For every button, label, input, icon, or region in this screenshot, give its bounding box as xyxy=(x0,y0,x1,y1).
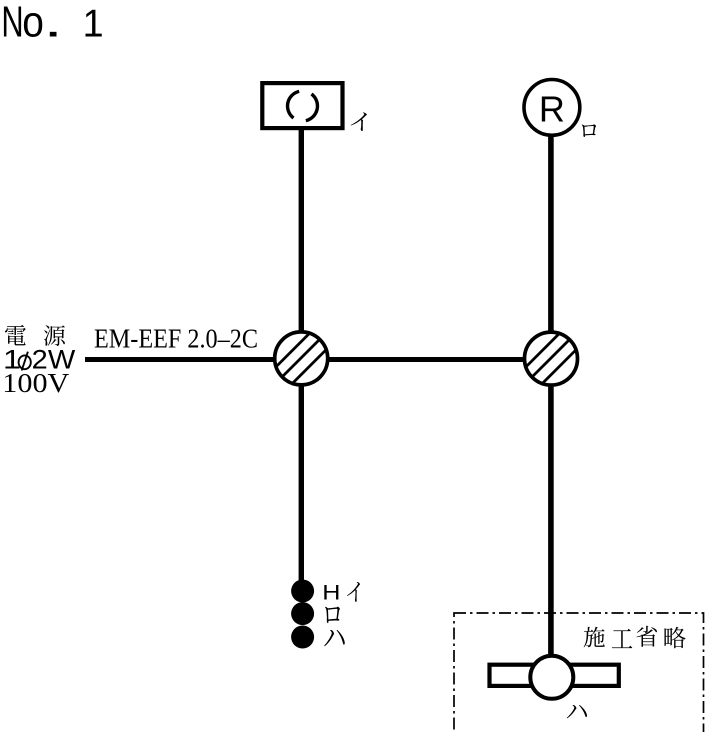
label ロ for lamp receptacle xyxy=(582,124,596,137)
switch ロ xyxy=(291,602,314,625)
svg-text:1: 1 xyxy=(83,3,104,45)
label イ for switch xyxy=(347,582,360,602)
title No. 1 xyxy=(1,0,103,47)
svg-text:R: R xyxy=(539,88,565,129)
wire from ceiling fixture to junction box A xyxy=(299,128,304,336)
svg-text:o: o xyxy=(22,0,44,46)
ceiling fixture イ (square hook ceiling rose) xyxy=(262,83,342,128)
power source label 1phi2W xyxy=(3,345,76,375)
wire from lamp receptacle R to junction box B xyxy=(548,134,554,336)
switch イ (single-pole, with pilot lamp H) xyxy=(291,580,314,603)
junction box B (right, hatched) xyxy=(514,322,587,395)
label ハ for switch xyxy=(324,630,345,647)
label ロ for switch xyxy=(325,607,340,623)
label 施工省略 xyxy=(584,626,686,649)
switch ハ xyxy=(291,626,314,649)
lamp ハ in omitted section (fixture with side bar) xyxy=(490,656,619,699)
lamp receptacle R xyxy=(524,80,580,136)
power source label 電源 xyxy=(5,325,65,346)
svg-text:100V: 100V xyxy=(2,368,70,398)
svg-text:N: N xyxy=(1,0,23,47)
svg-text:EM-EEF 2.0–2C: EM-EEF 2.0–2C xyxy=(94,323,258,353)
svg-text:.: . xyxy=(43,0,63,46)
svg-text:H: H xyxy=(322,580,340,604)
wire from power source to junction box A xyxy=(85,357,285,362)
wire from junction box A down to switches xyxy=(299,382,304,581)
label ハ for lamp xyxy=(567,705,587,718)
label イ for ceiling fixture xyxy=(351,112,367,131)
dash-dot boundary of omitted construction xyxy=(454,613,704,732)
wire from junction box B down to lamp xyxy=(548,382,554,660)
wire between junction box A and junction box B xyxy=(318,357,535,362)
junction box A (left, hatched) xyxy=(265,322,338,395)
